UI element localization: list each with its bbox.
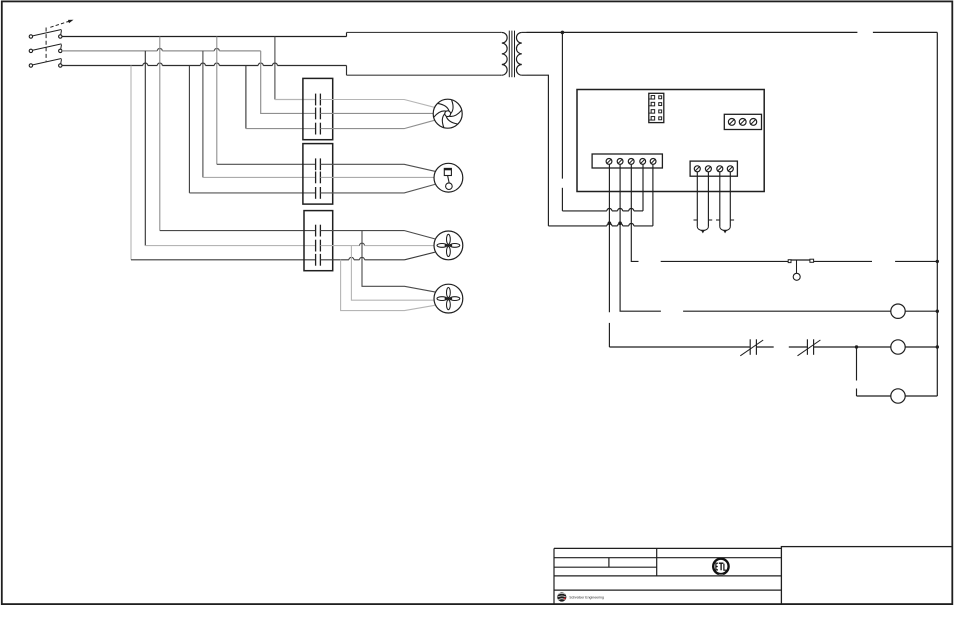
svg-text:Schreiber Engineering: Schreiber Engineering xyxy=(569,595,604,599)
